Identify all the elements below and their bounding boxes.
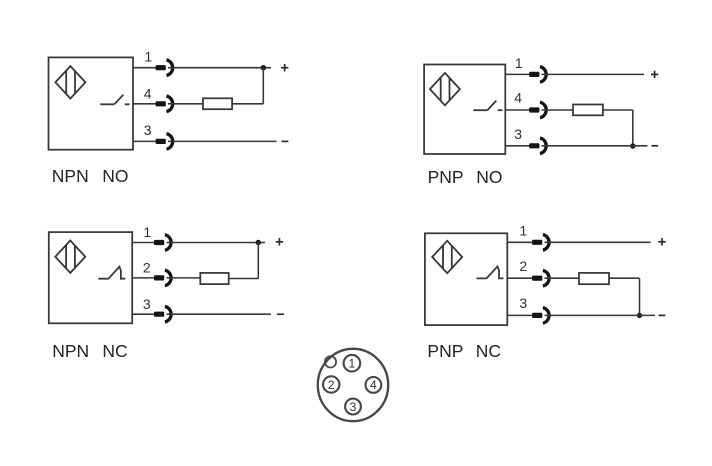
svg-text:4: 4 <box>514 89 522 105</box>
- supply terminal NPN-NO <box>282 140 289 142</box>
svg-text:3: 3 <box>519 295 527 311</box>
connector plug PNP-NO pin3 <box>529 138 546 154</box>
- supply terminal PNP-NO <box>651 145 658 147</box>
+ supply terminal NPN-NC <box>276 238 283 245</box>
connector keying notch <box>325 356 336 367</box>
pin 1 label PNP-NO <box>515 55 523 71</box>
svg-text:1: 1 <box>349 357 356 371</box>
pin 1 label PNP-NC <box>519 222 527 238</box>
wire NPN-NO pin3 stub <box>133 140 157 142</box>
wire PNP-NO pin3 stub <box>505 145 530 147</box>
wire NPN-NO load to junction <box>232 103 263 105</box>
pin 4 label NPN-NO <box>144 85 152 101</box>
wire NPN-NC junction drop <box>257 243 259 279</box>
svg-text:3: 3 <box>143 296 151 312</box>
NO switch contact PNP-NO <box>473 101 502 111</box>
connector plug PNP-NC pin2 <box>532 270 549 286</box>
connector plug NPN-NO pin1 <box>156 60 173 76</box>
connector pin 2 <box>323 376 339 392</box>
wire NPN-NC pin1 to + <box>167 242 266 244</box>
junction NPN-NC pin1/load <box>256 240 261 245</box>
svg-text:3: 3 <box>514 126 522 142</box>
pin 2 label PNP-NC <box>519 258 527 274</box>
connector plug PNP-NO pin1 <box>529 67 546 83</box>
sensor body PNP-NC <box>425 233 507 325</box>
wire NPN-NC pin3 stub <box>132 313 155 315</box>
connector pin 1 <box>344 355 361 372</box>
wire NPN-NO pin4 to load <box>168 103 203 105</box>
proximity-sensor symbol NPN-NO <box>55 66 85 98</box>
svg-text:3: 3 <box>350 400 357 414</box>
load resistor PNP-NC <box>579 273 609 284</box>
svg-text:4: 4 <box>370 378 377 392</box>
connector pin 4 <box>366 377 382 393</box>
connector plug NPN-NC pin2 <box>154 270 171 286</box>
connector plug PNP-NO pin4 <box>529 102 546 118</box>
+ supply terminal NPN-NO <box>281 64 288 71</box>
wire PNP-NO pin3 to - <box>542 145 648 147</box>
load resistor NPN-NC <box>200 273 228 284</box>
- supply terminal NPN-NC <box>277 313 284 315</box>
wire NPN-NC pin3 to - <box>167 313 271 315</box>
wire PNP-NC pin3 stub <box>507 314 533 316</box>
svg-text:3: 3 <box>144 122 152 138</box>
pin 3 label NPN-NO <box>144 122 152 138</box>
wire NPN-NO pin1 to + <box>168 67 271 69</box>
load resistor NPN-NO <box>203 98 232 109</box>
wire NPN-NC pin2 stub <box>132 277 155 279</box>
wire NPN-NO pin3 to - <box>168 140 277 142</box>
wire PNP-NO pin1 stub <box>505 73 530 75</box>
wire PNP-NC pin2 to load <box>545 277 580 279</box>
- supply terminal PNP-NC <box>659 314 666 316</box>
wire PNP-NO pin4 to load <box>542 109 574 111</box>
proximity-sensor symbol NPN-NC <box>55 241 85 273</box>
connector plug PNP-NC pin1 <box>532 235 549 251</box>
svg-text:1: 1 <box>144 49 152 65</box>
svg-text:NPN: NPN <box>52 166 89 186</box>
pin 3 label NPN-NC <box>143 296 151 312</box>
sensor body PNP-NO <box>424 65 505 155</box>
wire PNP-NC pin2 stub <box>507 277 533 279</box>
caption NPN NO <box>52 166 129 186</box>
connector plug NPN-NO pin3 <box>156 134 173 150</box>
svg-text:2: 2 <box>328 378 335 392</box>
pin 2 label NPN-NC <box>143 259 151 275</box>
wire NPN-NO pin4 stub <box>133 103 157 105</box>
junction PNP-NC pin3/load <box>637 313 642 318</box>
wire NPN-NC load to junction <box>229 278 259 280</box>
svg-text:1: 1 <box>143 224 151 240</box>
svg-text:NC: NC <box>102 341 127 361</box>
junction NPN-NO pin1/load <box>261 65 266 70</box>
proximity-sensor symbol PNP-NO <box>430 73 460 105</box>
svg-text:1: 1 <box>515 55 523 71</box>
wire NPN-NO junction drop <box>262 68 264 104</box>
wire NPN-NC pin2 to load <box>167 277 201 279</box>
svg-text:PNP: PNP <box>427 341 463 361</box>
proximity-sensor symbol PNP-NC <box>432 241 462 273</box>
connector plug NPN-NO pin4 <box>156 96 173 112</box>
sensor body NPN-NC <box>49 232 132 323</box>
pin 4 label PNP-NO <box>514 89 522 105</box>
svg-text:1: 1 <box>519 222 527 238</box>
caption PNP NC <box>427 341 501 361</box>
wire PNP-NC pin3 to - <box>545 314 656 316</box>
wire PNP-NO drop to pin3 <box>632 110 634 146</box>
pin 3 label PNP-NO <box>514 126 522 142</box>
connector plug PNP-NC pin3 <box>532 308 549 324</box>
svg-text:2: 2 <box>519 258 527 274</box>
junction PNP-NO pin3/load <box>630 143 635 148</box>
NC switch contact PNP-NC <box>477 266 504 278</box>
connector pin 3 <box>345 399 361 415</box>
+ supply terminal PNP-NO <box>651 71 658 78</box>
svg-text:2: 2 <box>143 259 151 275</box>
connector plug NPN-NC pin1 <box>154 235 171 251</box>
svg-text:NO: NO <box>102 166 128 186</box>
wire PNP-NO pin4 stub <box>505 109 530 111</box>
wire PNP-NC pin1 to + <box>545 241 651 243</box>
wire PNP-NC drop to pin3 <box>639 278 641 315</box>
+ supply terminal PNP-NC <box>658 238 665 245</box>
svg-text:4: 4 <box>144 85 152 101</box>
wire NPN-NC pin1 stub <box>132 242 155 244</box>
wire PNP-NO pin1 to + <box>542 73 645 75</box>
wire NPN-NO pin1 stub <box>133 67 157 69</box>
wire PNP-NC load to drop <box>609 277 640 279</box>
svg-text:NO: NO <box>476 167 502 187</box>
caption NPN NC <box>52 341 127 361</box>
pin 1 label NPN-NO <box>144 49 152 65</box>
connector face outline <box>318 349 388 421</box>
connector plug NPN-NC pin3 <box>154 306 171 322</box>
pin 1 label NPN-NC <box>143 224 151 240</box>
sensor body NPN-NO <box>49 57 134 149</box>
wire PNP-NO load to drop <box>603 109 633 111</box>
caption PNP NO <box>428 167 503 187</box>
load resistor PNP-NO <box>573 105 603 116</box>
svg-text:NC: NC <box>476 341 501 361</box>
pin 3 label PNP-NC <box>519 295 527 311</box>
wire PNP-NC pin1 stub <box>507 241 533 243</box>
NO switch contact NPN-NO <box>100 95 129 105</box>
svg-text:NPN: NPN <box>52 341 89 361</box>
NC switch contact NPN-NC <box>98 267 125 279</box>
svg-text:PNP: PNP <box>428 167 464 187</box>
